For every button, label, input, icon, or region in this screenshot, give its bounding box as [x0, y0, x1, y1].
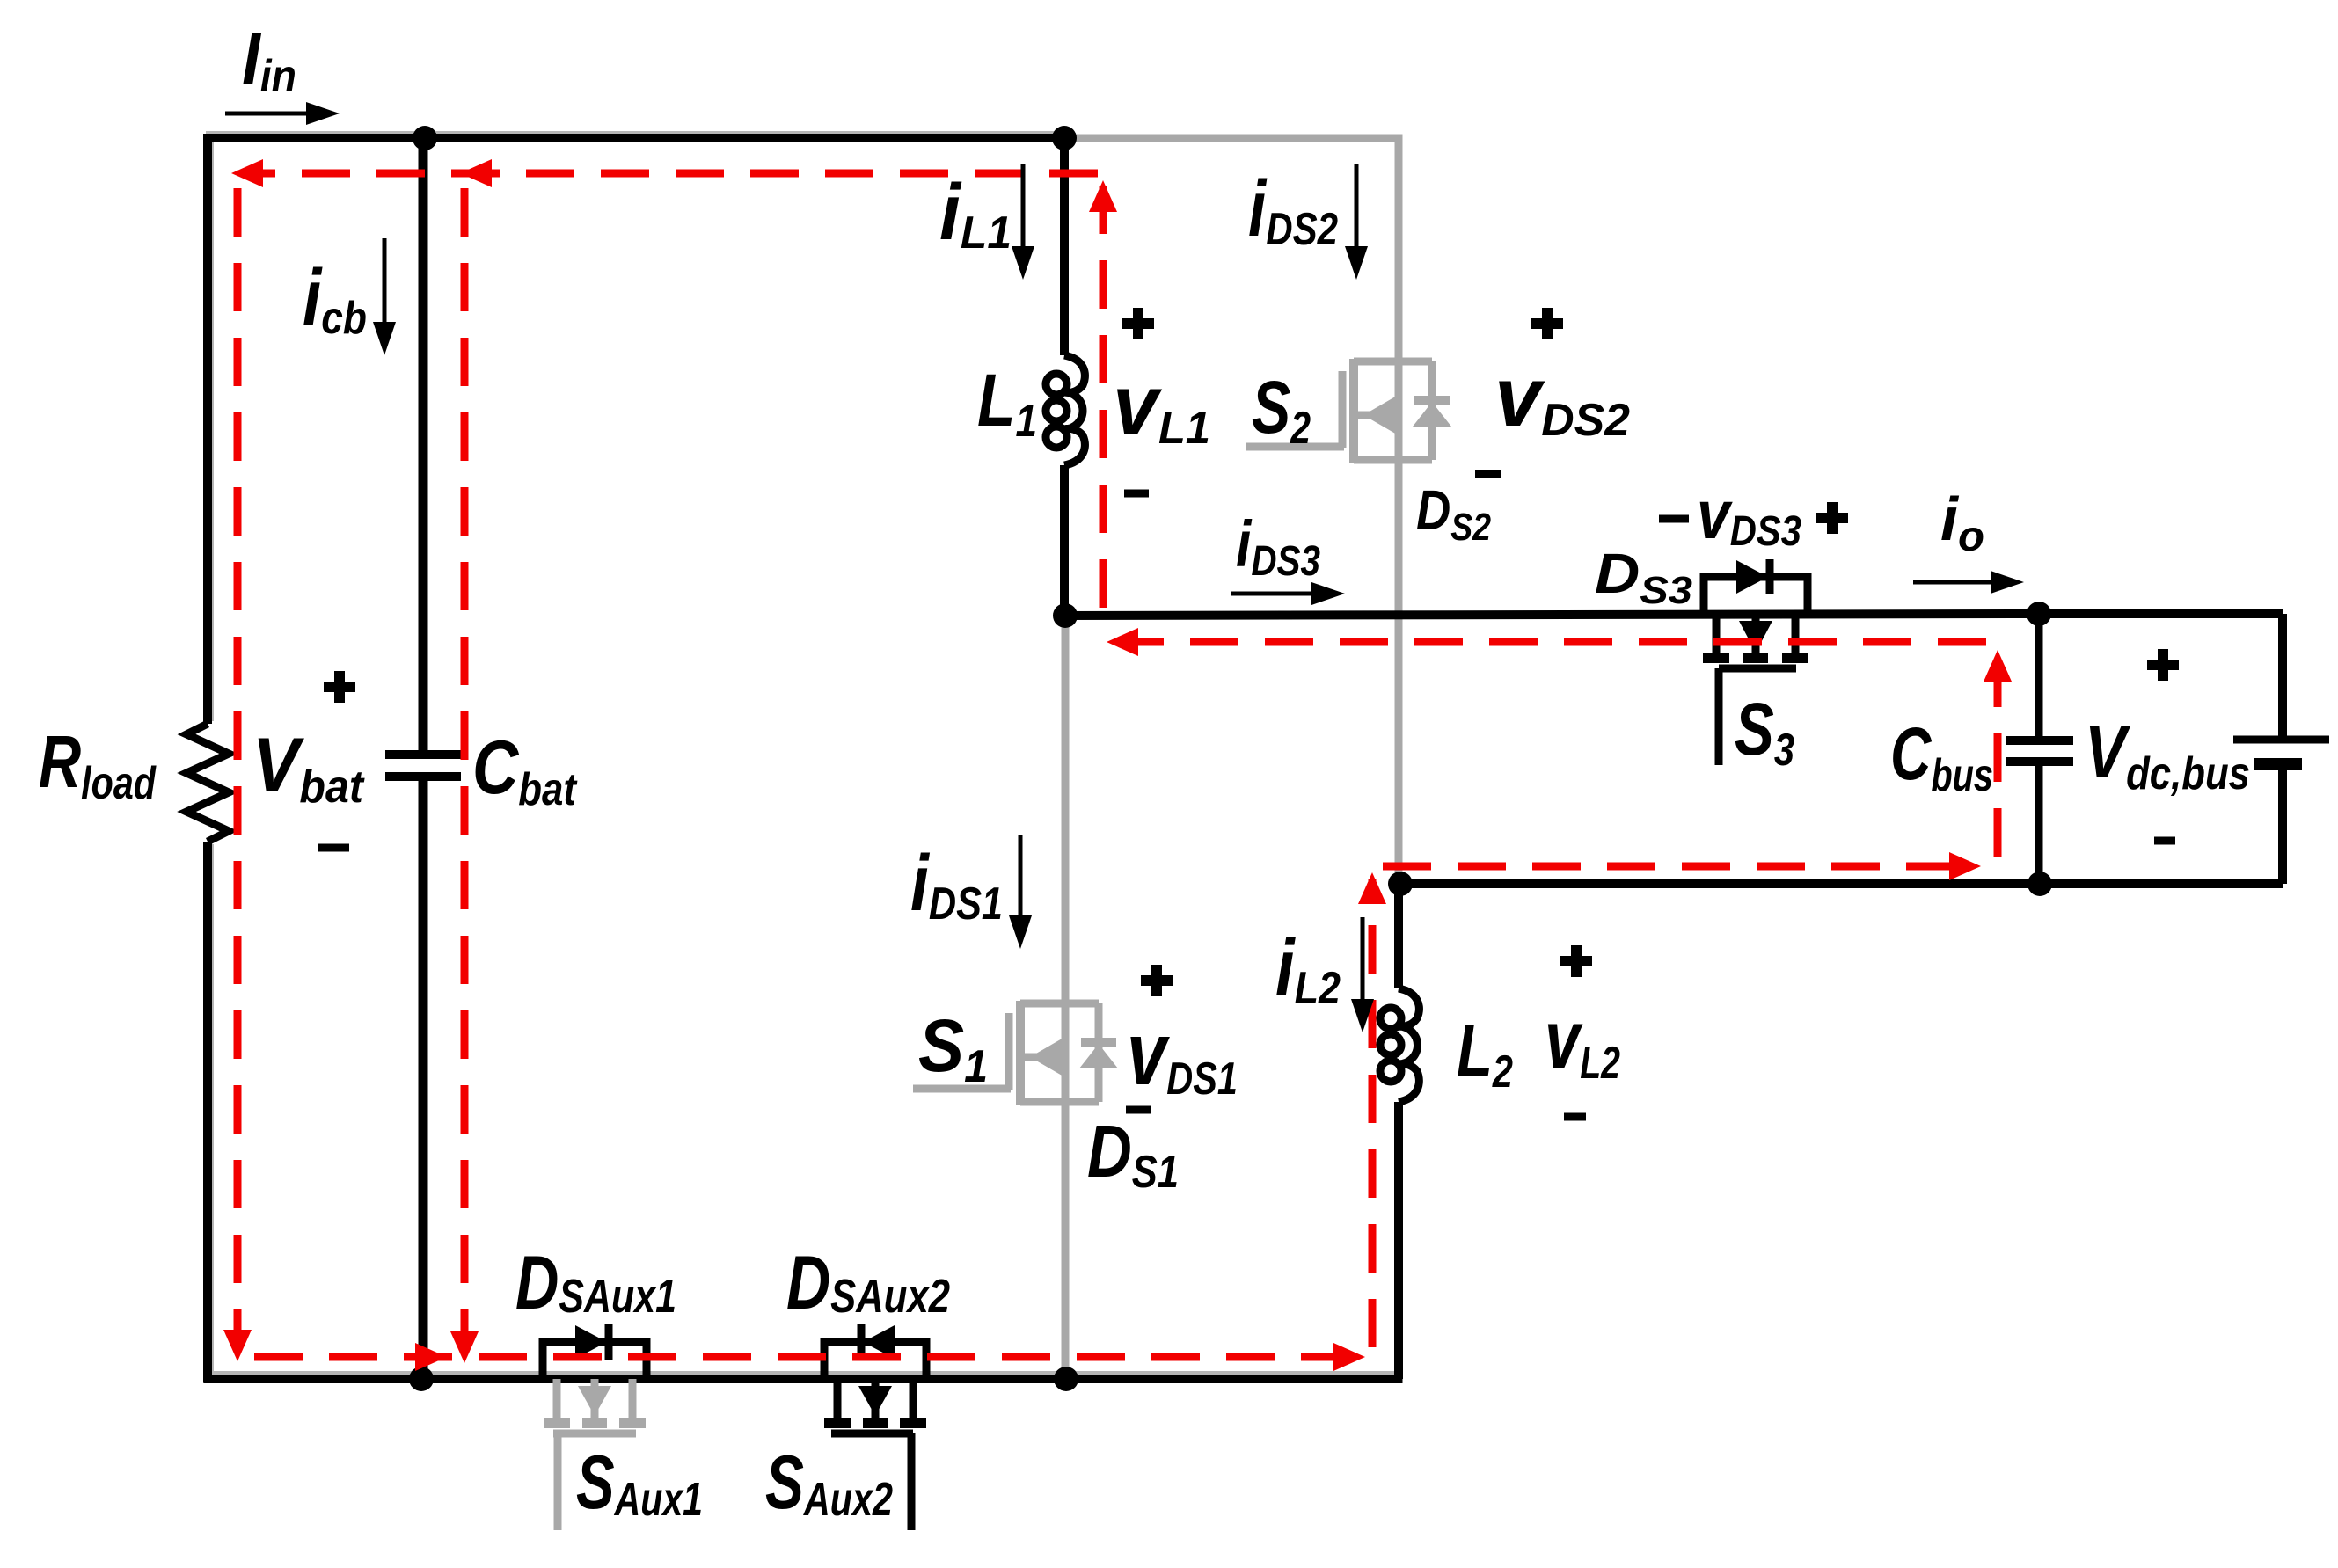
wire left branch upper	[203, 134, 212, 724]
wire mid bus	[1064, 614, 2039, 616]
red dashed path Cbat loop vertical	[461, 188, 469, 1349]
arrow io	[1913, 571, 2024, 594]
arrow iL1	[1012, 164, 1034, 280]
node bottom Cbat junction	[409, 1367, 434, 1391]
transistor SAux2 with diode DSAux2	[824, 1324, 926, 1530]
red arrowhead bottom-right pointing right	[1333, 1343, 1365, 1371]
polarity plus vDS1	[1141, 965, 1173, 996]
red arrowhead Cbat loop pointing down	[450, 1331, 479, 1363]
wire shadow top bus	[206, 131, 1063, 135]
red dashed path top horizontal	[247, 170, 1098, 178]
wire Cbat branch lower	[419, 781, 428, 1379]
red arrowhead L1 branch pointing up	[1089, 180, 1117, 212]
node bottom S1 junction	[1054, 1367, 1078, 1391]
node mid L1 junction	[1053, 603, 1078, 628]
wire L2 branch upper	[1394, 879, 1403, 988]
node top L1 junction	[1052, 126, 1077, 150]
arrow iL2	[1351, 917, 1374, 1032]
arrow icb	[373, 238, 396, 355]
wire gray S2 branch vertical	[1395, 135, 1403, 885]
red dashed path Cbus vertical	[1994, 664, 2002, 857]
polarity plus vL2	[1560, 945, 1592, 977]
polarity minus Vdcbus	[2154, 837, 2175, 845]
wire L2 branch lower	[1394, 1102, 1403, 1379]
red arrowhead lower link pointing right	[1949, 852, 1981, 880]
wire shadow left branch	[210, 142, 214, 1372]
polarity minus vDS2	[1475, 470, 1501, 478]
wire L1 branch upper	[1060, 138, 1069, 355]
node Cbus bottom junction	[2027, 872, 2052, 896]
wire L2 top link	[1399, 879, 2039, 888]
inductor L1	[1046, 355, 1085, 465]
polarity minus Vbat	[318, 844, 349, 852]
red dashed path L2 branch vertical	[1369, 879, 1377, 1347]
red dashed path mid horizontal	[1119, 638, 1986, 646]
polarity minus vL2	[1564, 1113, 1586, 1121]
wire Cbat branch upper	[419, 138, 428, 750]
wire shadow bottom bus	[209, 1371, 1400, 1375]
node L2 top junction	[1388, 872, 1413, 896]
transistor S2 (gray MOSFET with body diode DS2)	[1246, 359, 1451, 463]
polarity minus vL1	[1124, 490, 1149, 498]
red arrowhead top-left pointing left	[231, 159, 263, 187]
red dashed path Rload loop vertical	[234, 188, 242, 1347]
polarity plus Vbat	[324, 671, 355, 703]
red arrowhead mid pointing left	[1107, 628, 1138, 656]
red dashed path L1 branch vertical	[1100, 179, 1107, 608]
red arrowhead Cbus pointing up	[1984, 650, 2012, 682]
transistor S1 (gray MOSFET with body diode DS1)	[913, 1001, 1118, 1105]
source Vdcbus battery loop	[2039, 614, 2329, 884]
wire L1 branch lower	[1060, 465, 1069, 616]
red dashed path lower link horizontal	[1383, 863, 1972, 871]
wire left branch lower	[203, 842, 212, 1383]
wire top bus	[208, 134, 1064, 142]
polarity minus vDS1	[1126, 1106, 1151, 1114]
red arrowhead L2 branch pointing up	[1358, 872, 1386, 904]
resistor Rload	[186, 724, 229, 842]
polarity plus vDS3	[1816, 502, 1848, 534]
capacitor Cbat	[385, 755, 461, 777]
node top Cbat junction	[413, 126, 437, 150]
arrow iDS1	[1009, 835, 1032, 949]
red dashed path bottom horizontal	[254, 1353, 1362, 1361]
transistor SAux1 with diode DSAux1	[543, 1324, 647, 1530]
red arrowhead Rload loop pointing down	[223, 1330, 252, 1361]
red arrowhead bottom-left pointing right	[415, 1343, 447, 1371]
arrow iDS3	[1231, 582, 1345, 605]
polarity plus vDS2	[1531, 308, 1563, 339]
polarity plus vL1	[1122, 308, 1154, 339]
capacitor Cbus	[2006, 614, 2073, 884]
polarity plus Vdcbus	[2147, 649, 2179, 681]
wire gray top segment to S2 branch	[1064, 135, 1395, 142]
polarity minus vDS3	[1659, 515, 1689, 523]
node mid Cbus junction	[2027, 602, 2051, 626]
red arrowhead top-mid pointing left	[460, 159, 492, 187]
inductor L2	[1380, 988, 1419, 1102]
wire gray S1 branch vertical	[1062, 616, 1070, 1379]
arrow Iin	[225, 102, 340, 125]
arrow iDS2	[1345, 164, 1368, 280]
transistor S3 with diode DS3	[1703, 559, 1808, 765]
wire bottom bus	[204, 1375, 1403, 1383]
